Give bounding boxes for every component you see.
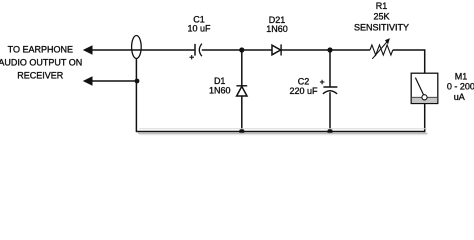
svg-text:M1: M1: [455, 72, 468, 82]
svg-text:TO EARPHONE: TO EARPHONE: [8, 45, 73, 55]
svg-text:AUDIO OUTPUT ON: AUDIO OUTPUT ON: [0, 58, 82, 68]
svg-text:220 uF: 220 uF: [289, 86, 318, 96]
svg-text:uA: uA: [454, 92, 465, 102]
svg-text:1N60: 1N60: [209, 85, 231, 95]
svg-text:SENSITIVITY: SENSITIVITY: [354, 23, 409, 33]
svg-text:1N60: 1N60: [266, 24, 288, 34]
svg-text:R1: R1: [376, 1, 388, 11]
svg-text:10 uF: 10 uF: [187, 24, 211, 34]
svg-text:25K: 25K: [373, 12, 389, 22]
svg-text:0 - 200: 0 - 200: [447, 82, 474, 92]
svg-text:RECEIVER: RECEIVER: [17, 71, 64, 81]
